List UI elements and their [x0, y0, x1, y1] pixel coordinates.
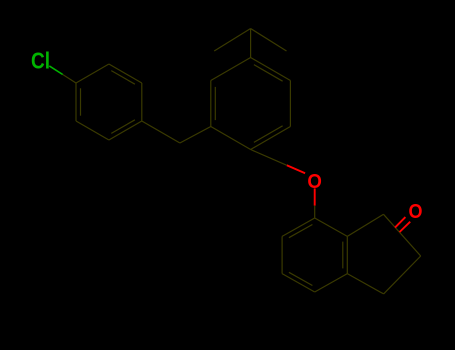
svg-text:O: O — [409, 201, 423, 223]
svg-text:Cl: Cl — [31, 48, 50, 74]
svg-text:O: O — [307, 170, 322, 193]
